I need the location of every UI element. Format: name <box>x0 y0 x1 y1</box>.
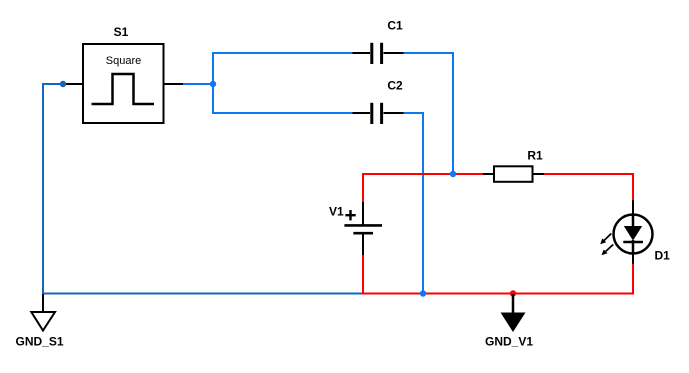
svg-text:GND_V1: GND_V1 <box>485 335 533 349</box>
svg-text:GND_S1: GND_S1 <box>16 335 64 349</box>
svg-text:S1: S1 <box>114 25 129 39</box>
svg-text:C2: C2 <box>387 79 403 93</box>
svg-text:C1: C1 <box>387 19 403 33</box>
svg-text:Square: Square <box>106 55 141 67</box>
svg-text:R1: R1 <box>527 149 543 163</box>
svg-text:V1: V1 <box>329 205 344 219</box>
svg-text:D1: D1 <box>655 249 671 263</box>
